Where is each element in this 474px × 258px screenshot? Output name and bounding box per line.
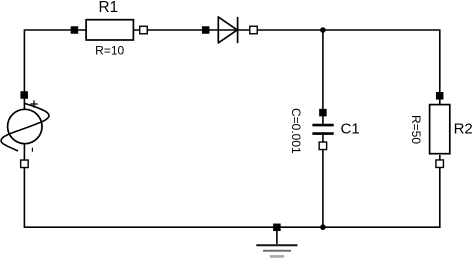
svg-text:C=0.001: C=0.001 <box>289 108 303 154</box>
resistor R2 body <box>430 105 450 154</box>
label R2 <box>454 120 473 137</box>
value label C=0.001 (rotated) <box>289 108 303 154</box>
pin R1.p (filled square) <box>71 26 79 34</box>
pin D1.n (open square) <box>250 26 258 34</box>
node junction bottom (ground net) <box>320 224 326 230</box>
capacitor C1 plates <box>312 125 333 134</box>
svg-text:C1: C1 <box>341 121 360 138</box>
ground G1 pin (filled square) <box>273 224 281 232</box>
pin R2.n (open square) <box>436 160 444 168</box>
pin D1.p (filled square) <box>202 26 210 34</box>
pin C1.n (open square) <box>319 142 327 150</box>
resistor R1 body <box>86 20 133 40</box>
value label R=10 <box>95 44 124 58</box>
label R1 <box>99 0 119 16</box>
svg-text:R=10: R=10 <box>95 44 124 58</box>
V1 plus sign <box>30 100 37 107</box>
svg-text:R1: R1 <box>99 0 119 16</box>
pin R2.p (filled square) <box>436 92 444 100</box>
wire left rail (source to top-left corner and top rail to R1) <box>24 30 74 110</box>
wire C1 branch lower <box>322 135 324 227</box>
wire C1 branch upper <box>322 30 324 125</box>
ground G1 bar 1 <box>256 244 297 246</box>
wire source bottom to bottom-left corner and bottom rail <box>24 144 439 228</box>
wire R1 pin to diode pin <box>74 29 205 31</box>
node junction top (diode/C1/R2 net) <box>320 27 326 33</box>
svg-text:R2: R2 <box>454 120 473 137</box>
diode D1 triangle <box>218 17 237 43</box>
pin C1.p (filled square) <box>319 109 327 117</box>
ground G1 bar 2 <box>263 250 291 252</box>
ground G1 stub <box>276 231 278 244</box>
pin R1.n (open square) <box>140 26 148 34</box>
pin V1.n (open square) <box>21 160 29 168</box>
svg-text:R=50: R=50 <box>409 115 423 144</box>
wire diode to node and top-right corner down to R2 <box>206 30 440 105</box>
V1 minus sign (rotated) <box>31 148 33 152</box>
voltage source V1 (sine) <box>1 103 49 151</box>
ground G1 bar 3 <box>270 255 284 258</box>
pin V1.p (filled square) <box>20 91 28 99</box>
value label R=50 (rotated) <box>409 115 423 144</box>
diode D1 cathode bar <box>237 17 239 43</box>
label C1 <box>341 121 360 138</box>
